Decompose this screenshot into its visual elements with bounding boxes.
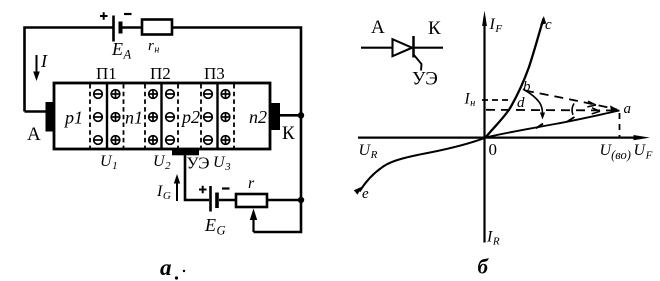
svg-text:e: e [362,186,369,202]
svg-text:А: А [371,17,385,38]
svg-text:p2: p2 [180,107,200,127]
ink speck [175,276,178,279]
dashed curve: from b to a (upper) [525,91,617,110]
svg-text:n2: n2 [249,107,267,127]
thyristor symbol: gate lead [414,55,422,71]
rheostat wiper arrow [250,209,257,233]
arrowhead on upper dashed curve near a [610,105,619,111]
svg-text:УЭ: УЭ [187,154,210,173]
svg-text:К: К [428,18,441,39]
svg-text:a: a [624,101,632,117]
terminal A (anode electrode) [27,102,55,145]
curve: arc from b down with arrow (turn-off path) [523,89,545,120]
terminal K (cathode electrode) [271,103,296,144]
arrowhead on blocking branch pointing to origin (second) [567,117,575,122]
wire: cathode terminal to right rail [279,114,301,117]
arrowhead on upper dashed curve [587,101,596,107]
thyristor structure body [54,83,270,149]
thyristor symbol: cathode wire [414,47,444,49]
current arrow IG [156,174,180,202]
axis vertical IF/IR [482,11,502,248]
dashed line: holding current I_н level [464,91,513,110]
arrowhead on lower dashed line [592,108,600,114]
arrowhead on blocking branch pointing to origin [536,124,543,129]
thyristor symbol: anode wire [361,47,393,49]
wire: resistor r to bottom-right node [267,199,301,202]
curve: forward blocking branch 0 to a [486,111,620,138]
svg-text:П2: П2 [150,64,171,83]
wire: resistor rn to top-right corner and right rail down [172,28,301,233]
curve: on-state branch up to c [486,19,544,138]
dashed tick below a down to axis [619,113,621,137]
svg-text:I: I [40,51,48,71]
wire: top-left horizontal from corner to battery EA [25,28,113,112]
wire: gate lead down from gate electrode [185,154,209,200]
node: bottom-right junction [298,197,304,203]
svg-text:П1: П1 [96,64,117,83]
wire: battery EG to resistor r [219,199,236,202]
wire: battery EA to resistor rn [121,26,142,29]
resistor r (rheostat) [236,175,267,207]
svg-text:p1: p1 [63,108,83,128]
arrowhead at top of on-state branch [540,16,546,25]
gate electrode contact (УЭ) [172,150,199,156]
battery EA [100,12,132,61]
node: cathode junction on right rail [298,112,304,118]
svg-text:c: c [545,17,552,33]
current arrow I [33,51,48,81]
wire: anode lead into terminal A [25,110,46,113]
junction П3 [201,64,234,173]
tick crossing lower dashed line [572,104,574,115]
svg-text:0: 0 [489,140,498,159]
thyristor symbol: cathode bar [412,36,415,58]
arrowhead at end of reverse branch [354,187,362,195]
resistor rn [142,20,172,56]
thyristor symbol: triangle [393,39,413,56]
junction П2 [145,64,178,172]
svg-text:П3: П3 [204,64,225,83]
svg-text:r: r [248,175,255,192]
svg-text:a: a [160,255,172,280]
svg-text:б: б [478,255,490,279]
svg-text:n1: n1 [125,108,143,128]
svg-text:К: К [282,123,295,144]
svg-text:УЭ: УЭ [412,69,438,90]
curve: reverse branch to e [360,138,486,192]
svg-text:А: А [27,124,41,145]
axis horizontal UR/UF [358,135,653,162]
junction П1 [90,64,124,172]
battery EG [199,186,230,238]
ink speck [183,270,185,272]
dashed line: lower level to a [486,109,617,112]
svg-text:d: d [517,95,525,111]
